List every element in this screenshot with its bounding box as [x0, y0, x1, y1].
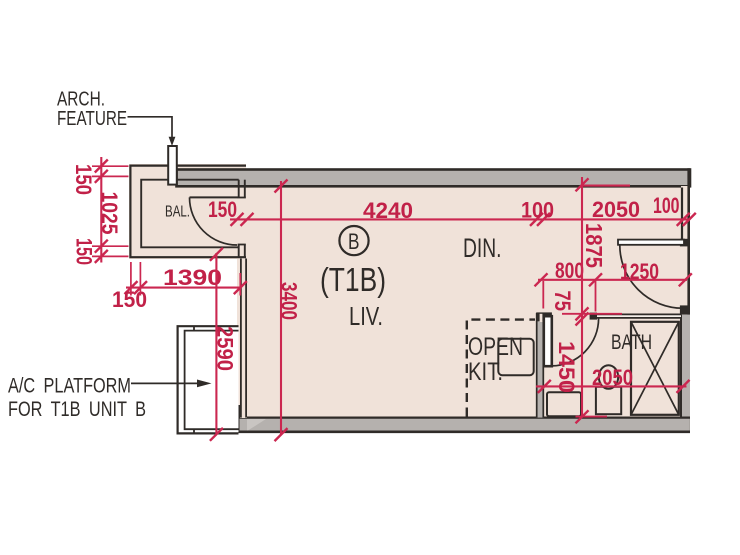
- svg-text:FOR T1B UNIT B: FOR T1B UNIT B: [8, 398, 146, 421]
- svg-text:LIV.: LIV.: [349, 301, 383, 331]
- entrance door leaf: [618, 240, 684, 245]
- svg-text:1390: 1390: [163, 265, 222, 290]
- svg-text:2050: 2050: [592, 197, 640, 222]
- balcony walls: [130, 166, 246, 258]
- arch feature: [168, 146, 177, 185]
- svg-text:100: 100: [521, 198, 554, 223]
- svg-text:800: 800: [555, 258, 584, 283]
- bath top wall: [590, 314, 681, 318]
- wall east upper segment: [681, 168, 690, 433]
- svg-text:FEATURE: FEATURE: [57, 108, 127, 130]
- dimension line H1 (150/4240/100/2050/100): [230, 213, 696, 226]
- A/C platform: [178, 326, 239, 433]
- svg-text:2590: 2590: [212, 326, 237, 371]
- svg-text:B: B: [348, 229, 360, 254]
- svg-text:150: 150: [208, 197, 237, 222]
- basin: [547, 392, 581, 416]
- shower tray with X: [631, 322, 679, 415]
- svg-text:100: 100: [653, 193, 680, 218]
- svg-text:1875: 1875: [581, 223, 607, 268]
- svg-text:A/C PLATFORM: A/C PLATFORM: [8, 375, 131, 398]
- svg-text:1450: 1450: [554, 341, 579, 393]
- dimension line V1 (150/1025/150): [95, 157, 108, 263]
- svg-text:OPEN: OPEN: [468, 333, 523, 361]
- svg-text:(T1B): (T1B): [320, 261, 386, 298]
- wall between kitchen and bath (gray): [536, 313, 544, 418]
- leader line A/C platform: [131, 382, 198, 384]
- bath door swing arc: [552, 318, 599, 366]
- leader line arch feature: [128, 117, 173, 139]
- wall east lower segment (gray): [680, 315, 690, 418]
- entrance door swing arc: [620, 245, 683, 308]
- dimension line H4 (2050 bath): [536, 380, 690, 393]
- floor main unit: [237, 170, 690, 432]
- svg-text:2050: 2050: [592, 365, 633, 390]
- svg-text:1025: 1025: [97, 192, 122, 235]
- svg-text:150: 150: [112, 287, 147, 312]
- dimension line V2 (2590): [210, 248, 223, 441]
- svg-text:KIT.: KIT.: [468, 358, 503, 386]
- kitchen counter: [498, 339, 533, 375]
- dimension line H5 (1390/150): [125, 281, 247, 294]
- door jamb block upper (entrance): [680, 239, 690, 247]
- dimension line V4 (1875/75/1450): [576, 177, 589, 423]
- bath door jamb block: [590, 313, 597, 320]
- dimension line V3 (3400): [275, 180, 288, 442]
- toilet: [596, 365, 621, 414]
- wall bottom (thick gray): [238, 418, 690, 433]
- door jamb block lower (entrance): [680, 305, 690, 314]
- svg-text:1250: 1250: [620, 259, 659, 284]
- svg-text:150: 150: [71, 164, 96, 195]
- kitchen door jamb block: [536, 312, 552, 321]
- red extension lines: [92, 166, 630, 416]
- svg-text:3400: 3400: [277, 282, 302, 320]
- bath door leaf: [544, 316, 552, 366]
- svg-text:4240: 4240: [363, 198, 413, 223]
- wall west end cap block: [238, 405, 246, 418]
- dimension line H3 (800/1250): [535, 273, 692, 286]
- svg-text:150: 150: [72, 238, 97, 265]
- svg-text:DIN.: DIN.: [463, 233, 502, 263]
- svg-text:BAL.: BAL.: [165, 204, 190, 221]
- wall top (thick gray): [177, 170, 691, 187]
- svg-text:BATH: BATH: [611, 331, 652, 354]
- kitchen dashed boundary: [467, 320, 535, 417]
- unit symbol circle B: [339, 226, 368, 255]
- balcony door leaf: [190, 196, 239, 198]
- svg-text:75: 75: [550, 291, 575, 312]
- floor balcony: [129, 164, 246, 259]
- wall west below balcony: [240, 259, 247, 419]
- balcony door swing arc: [190, 197, 238, 245]
